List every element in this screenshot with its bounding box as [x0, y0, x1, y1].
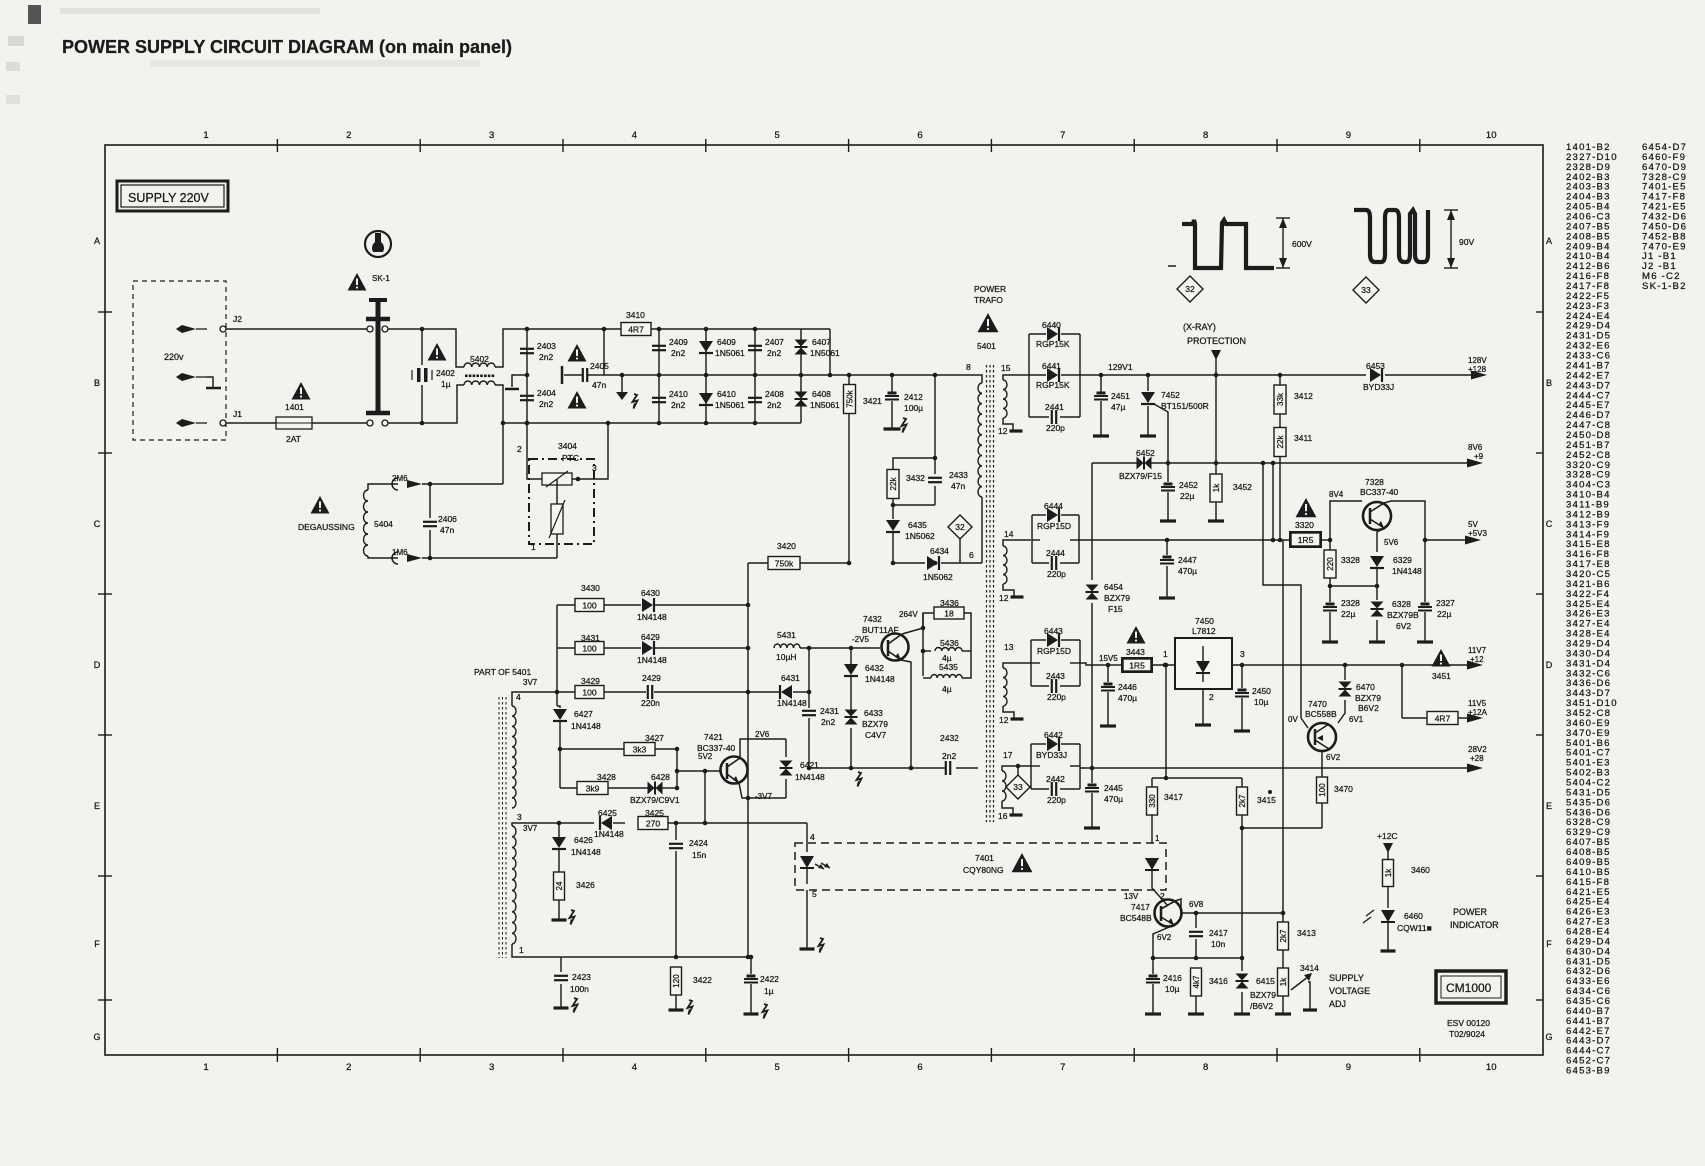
capacitor 2327 22u: [1424, 540, 1426, 602]
svg-text:1N5061: 1N5061: [715, 348, 745, 358]
svg-text:9: 9: [1346, 130, 1351, 141]
warning triangle 3443: [1127, 626, 1146, 644]
vertical feedback bus: [1282, 540, 1284, 913]
opto phototransistor: [1145, 858, 1159, 870]
svg-text:750k: 750k: [775, 559, 794, 569]
svg-text:10µ: 10µ: [1254, 697, 1268, 707]
svg-text:6V8: 6V8: [1189, 900, 1204, 909]
svg-text:6: 6: [917, 1062, 922, 1073]
connector J2: [220, 326, 226, 332]
output +128: [1385, 374, 1482, 376]
svg-text:(X-RAY): (X-RAY): [1183, 322, 1216, 332]
svg-text:6408: 6408: [812, 389, 831, 399]
LED 6460 CQW11: [1381, 910, 1395, 922]
svg-text:8: 8: [1203, 130, 1208, 141]
svg-text:6V2: 6V2: [1396, 621, 1411, 631]
svg-text:2417: 2417: [1209, 928, 1228, 938]
resistor 3320 1R5: [1289, 531, 1322, 548]
svg-text:2402: 2402: [436, 368, 455, 378]
svg-text:100: 100: [582, 601, 596, 611]
svg-text:2n2: 2n2: [767, 400, 781, 410]
wire 16V rail to 3320: [1079, 539, 1291, 541]
svg-text:3: 3: [1240, 649, 1245, 659]
fuse 1401 2AT: [292, 382, 311, 400]
svg-text:6427: 6427: [574, 709, 593, 719]
svg-text:47n: 47n: [592, 380, 606, 390]
diode 6421 1N4148: [785, 739, 787, 757]
svg-text:470µ: 470µ: [1178, 566, 1197, 576]
svg-text:6442: 6442: [1044, 730, 1063, 740]
svg-text:RGP15D: RGP15D: [1037, 521, 1071, 531]
capacitor 2445 470u: [1091, 768, 1093, 783]
svg-text:5431: 5431: [777, 630, 796, 640]
svg-text:2n2: 2n2: [671, 348, 685, 358]
svg-text:0V: 0V: [1288, 715, 1298, 724]
svg-text:SK-1-B2: SK-1-B2: [1642, 281, 1687, 292]
zener 6454 BZX79 F15: [1091, 540, 1093, 580]
svg-text:4R7: 4R7: [1435, 714, 1451, 724]
diode 6435 1N5062: [892, 505, 894, 519]
svg-text:12: 12: [999, 593, 1009, 603]
svg-text:BC337-40: BC337-40: [697, 743, 736, 753]
svg-text:3430: 3430: [581, 583, 600, 593]
svg-text:BT151/500R: BT151/500R: [1161, 401, 1209, 411]
diode 6432 1N4148: [850, 648, 852, 664]
svg-text:3: 3: [489, 130, 494, 141]
svg-text:129V1: 129V1: [1108, 362, 1133, 372]
svg-text:3416: 3416: [1209, 976, 1228, 986]
svg-text:100: 100: [1318, 783, 1327, 797]
capacitor 2424 15n: [675, 823, 677, 840]
svg-text:2404: 2404: [537, 388, 556, 398]
capacitor 2409 2n2: [658, 329, 660, 375]
wire 0V tap: [1261, 461, 1266, 466]
svg-text:3k3: 3k3: [633, 745, 647, 755]
bridge mid rail: [604, 374, 830, 376]
mains input dashed box: [133, 281, 226, 440]
svg-text:2403: 2403: [537, 341, 556, 351]
svg-text:BZX79: BZX79: [1355, 693, 1381, 703]
svg-text:+12A: +12A: [1468, 708, 1488, 717]
svg-text:24: 24: [555, 881, 564, 890]
resistor 3460 1k: [1383, 860, 1394, 887]
svg-text:+5V3: +5V3: [1468, 529, 1487, 538]
svg-text:3: 3: [489, 1062, 494, 1073]
svg-text:13: 13: [1004, 642, 1014, 652]
resistor 3421 750k: [847, 373, 852, 378]
svg-text:3421: 3421: [863, 396, 882, 406]
svg-text:2k7: 2k7: [1238, 794, 1247, 807]
output +5V3: [1425, 539, 1476, 541]
svg-text:/B6V2: /B6V2: [1250, 1001, 1273, 1011]
svg-text:E: E: [1546, 801, 1552, 811]
svg-text:6328: 6328: [1392, 599, 1411, 609]
resistor 3428 3k9: [559, 749, 561, 788]
svg-text:F: F: [94, 939, 100, 949]
svg-text:15: 15: [1001, 363, 1011, 373]
svg-text:C: C: [1546, 519, 1553, 529]
svg-text:2422: 2422: [760, 974, 779, 984]
wire pin3 rail: [530, 822, 594, 824]
svg-text:2AT: 2AT: [286, 434, 301, 444]
svg-text:2n2: 2n2: [539, 399, 553, 409]
resistor 3412 33k: [1278, 373, 1283, 378]
resistor 3422 120: [671, 967, 682, 995]
mains input pin earth: [176, 373, 196, 381]
regulator output +12 rail: [1232, 664, 1478, 666]
svg-text:1k: 1k: [1279, 977, 1288, 986]
mid tap to chassis: [525, 373, 530, 378]
svg-text:3320: 3320: [1295, 520, 1314, 530]
svg-text:9: 9: [1346, 1062, 1351, 1073]
svg-text:4: 4: [810, 832, 815, 842]
svg-text:90V: 90V: [1459, 237, 1474, 247]
svg-text:1N4148: 1N4148: [865, 674, 895, 684]
mains input pin N: [176, 419, 196, 427]
regulator pin 2 ground: [1202, 689, 1204, 724]
svg-text:6435: 6435: [908, 520, 927, 530]
svg-text:3420: 3420: [777, 541, 796, 551]
svg-text:1R5: 1R5: [1298, 535, 1314, 545]
svg-text:2n2: 2n2: [539, 352, 553, 362]
svg-text:BZX79: BZX79: [1250, 990, 1276, 1000]
svg-text:1k: 1k: [1384, 868, 1393, 877]
svg-text:5402: 5402: [470, 354, 489, 364]
svg-text:6329: 6329: [1393, 555, 1412, 565]
capacitor 2450 10u: [1241, 665, 1243, 688]
resistor 3416 4k7: [1191, 968, 1202, 996]
svg-text:BZX79B: BZX79B: [1387, 610, 1419, 620]
svg-text:J2: J2: [233, 314, 242, 324]
svg-text:5: 5: [812, 889, 817, 899]
svg-text:2445: 2445: [1104, 783, 1123, 793]
svg-text:17: 17: [1003, 750, 1013, 760]
svg-text:G: G: [1545, 1032, 1552, 1042]
svg-text:6428: 6428: [651, 772, 670, 782]
svg-text:22µ: 22µ: [1180, 491, 1194, 501]
svg-text:1: 1: [531, 542, 536, 552]
svg-text:33k: 33k: [1276, 392, 1285, 406]
svg-text:-3V7: -3V7: [755, 792, 772, 801]
svg-text:ESV 00120: ESV 00120: [1447, 1018, 1490, 1028]
svg-text:12: 12: [998, 426, 1008, 436]
svg-text:T02/9024: T02/9024: [1449, 1029, 1485, 1039]
node 8V4: [1328, 538, 1333, 543]
svg-text:BYD33J: BYD33J: [1036, 750, 1067, 760]
wire to 3427: [558, 747, 563, 752]
svg-text:3413: 3413: [1297, 928, 1316, 938]
svg-text:3V7: 3V7: [523, 678, 538, 687]
svg-text:2327: 2327: [1436, 598, 1455, 608]
svg-text:SUPPLY 220V: SUPPLY 220V: [128, 191, 210, 205]
capacitor 2451 47u: [1099, 373, 1104, 378]
svg-text:+28: +28: [1470, 754, 1484, 763]
wire 129V1 rail: [1080, 374, 1366, 376]
svg-text:18: 18: [944, 609, 954, 619]
svg-text:1µ: 1µ: [764, 986, 774, 996]
diamond 33 node: [1016, 764, 1021, 769]
svg-text:1: 1: [203, 130, 208, 141]
wire 12V tap to 3417 3415: [1165, 665, 1167, 778]
svg-text:47µ: 47µ: [1111, 402, 1125, 412]
resistor 3411 22k: [1279, 414, 1281, 428]
svg-text:C4V7: C4V7: [865, 730, 887, 740]
svg-text:10: 10: [1486, 1062, 1497, 1073]
svg-text:6407: 6407: [812, 337, 831, 347]
svg-text:6V2: 6V2: [1326, 753, 1341, 762]
svg-text:TRAFO: TRAFO: [974, 295, 1003, 305]
svg-text:2431: 2431: [820, 706, 839, 716]
svg-text:1N5061: 1N5061: [715, 400, 745, 410]
capacitor 2406 47n: [422, 483, 503, 485]
svg-text:15V5: 15V5: [1099, 654, 1118, 663]
svg-text:1N4148: 1N4148: [1392, 566, 1422, 576]
svg-text:270: 270: [646, 819, 660, 829]
svg-text:1: 1: [203, 1062, 208, 1073]
collector 7417 6V8 rail: [1175, 899, 1196, 913]
svg-text:5401: 5401: [977, 341, 996, 351]
emitter 7421: [739, 783, 786, 798]
capacitor 2431 2n2: [808, 648, 810, 708]
svg-text:47n: 47n: [440, 525, 454, 535]
left bus of resistor rows: [556, 605, 558, 692]
svg-text:2433: 2433: [949, 470, 968, 480]
svg-text:VOLTAGE: VOLTAGE: [1329, 986, 1370, 996]
svg-text:22µ: 22µ: [1341, 609, 1355, 619]
svg-text:D: D: [94, 660, 101, 670]
svg-text:22k: 22k: [1276, 435, 1285, 449]
svg-text:+9: +9: [1474, 452, 1484, 461]
svg-text:B: B: [94, 378, 100, 388]
left hv bus 6454: [1091, 463, 1093, 540]
svg-text:6433: 6433: [864, 708, 883, 718]
svg-text:CM1000: CM1000: [1446, 981, 1492, 995]
svg-text:470µ: 470µ: [1118, 693, 1137, 703]
svg-text:3: 3: [592, 463, 597, 473]
svg-text:6432: 6432: [865, 663, 884, 673]
waveform 32 600V: [1182, 220, 1274, 268]
emitter 7417: [1153, 925, 1174, 958]
capacitor 2416 10u: [1152, 958, 1154, 974]
diode 6426 1N4148: [558, 823, 560, 837]
diode 6329 1N4148: [1370, 556, 1384, 567]
capacitor 2412 100u: [890, 373, 895, 378]
wire row 6429: [557, 647, 575, 649]
svg-text:10n: 10n: [1211, 939, 1225, 949]
svg-text:220p: 220p: [1047, 692, 1066, 702]
svg-text:2405: 2405: [590, 361, 609, 371]
svg-text:6: 6: [969, 550, 974, 560]
emitter 7432 to ground rail: [901, 660, 911, 768]
resistor 3426 24: [554, 872, 565, 900]
capacitor 2405 47n with chassis: [603, 329, 605, 375]
zener 6328 BZX79B 6V2: [1376, 586, 1378, 600]
wire 15V5 rail: [1080, 663, 1108, 665]
svg-text:ADJ: ADJ: [1329, 999, 1346, 1009]
svg-text:3427: 3427: [645, 733, 664, 743]
svg-text:L7812: L7812: [1192, 626, 1216, 636]
svg-text:7452: 7452: [1161, 390, 1180, 400]
warning triangle 3320: [1296, 498, 1317, 517]
svg-text:8V6: 8V6: [1468, 443, 1483, 452]
resistor 3417 330: [1151, 778, 1153, 787]
svg-text:33: 33: [1361, 285, 1371, 295]
svg-text:100: 100: [582, 644, 596, 654]
capacitor 2433 47n: [934, 458, 936, 474]
svg-text:2407: 2407: [765, 337, 784, 347]
capacitor 2452 22u: [1166, 461, 1171, 466]
svg-text:E: E: [94, 801, 100, 811]
svg-text:16: 16: [998, 811, 1008, 821]
svg-text:1N5061: 1N5061: [810, 348, 840, 358]
PTC horizontal element: [542, 473, 572, 485]
svg-text:2410: 2410: [669, 389, 688, 399]
bottom rail: [530, 956, 751, 958]
wire SK-1 to filter bottom: [388, 422, 422, 424]
svg-text:4: 4: [516, 692, 521, 702]
svg-text:BC558B: BC558B: [1305, 709, 1337, 719]
svg-text:F: F: [1546, 939, 1552, 949]
svg-text:6410: 6410: [717, 389, 736, 399]
svg-text:5436: 5436: [940, 638, 959, 648]
optocoupler 7401 CQY80NG dashed box: [795, 843, 1166, 890]
svg-text:13V: 13V: [1124, 892, 1139, 901]
svg-text:11V5: 11V5: [1468, 699, 1487, 708]
svg-text:A: A: [94, 236, 100, 246]
svg-text:4k7: 4k7: [1192, 975, 1201, 988]
svg-text:RGP15K: RGP15K: [1036, 380, 1070, 390]
svg-text:1k: 1k: [1212, 483, 1221, 492]
svg-text:3429: 3429: [581, 676, 600, 686]
svg-text:POWER: POWER: [1453, 907, 1488, 917]
svg-text:6452: 6452: [1136, 448, 1155, 458]
transformer core: [986, 365, 988, 822]
svg-text:2451: 2451: [1111, 391, 1130, 401]
svg-text:F15: F15: [1108, 604, 1123, 614]
svg-text:220p: 220p: [1046, 423, 1065, 433]
PTC vertical element: [556, 479, 558, 504]
svg-text:1R5: 1R5: [1129, 661, 1145, 671]
wire 3415 to 3470 bottom: [1242, 827, 1322, 829]
svg-text:BYD33J: BYD33J: [1363, 382, 1394, 392]
wires 3436 5436 right join: [962, 613, 971, 678]
svg-text:3411: 3411: [1294, 433, 1313, 443]
resistor 3413 2k7: [1282, 913, 1284, 922]
svg-text:220p: 220p: [1047, 795, 1066, 805]
svg-text:6430: 6430: [641, 588, 660, 598]
svg-text:2V6: 2V6: [755, 730, 770, 739]
svg-text:CQW11■: CQW11■: [1397, 923, 1432, 933]
svg-text:1N4148: 1N4148: [637, 655, 667, 665]
capacitor 2328 22u: [1329, 586, 1331, 602]
svg-text:1N4148: 1N4148: [637, 612, 667, 622]
svg-text:SK-1: SK-1: [372, 274, 390, 283]
svg-text:5435: 5435: [939, 662, 958, 672]
svg-text:100µ: 100µ: [904, 403, 923, 413]
svg-text:J1: J1: [233, 409, 242, 419]
svg-text:6443: 6443: [1044, 626, 1063, 636]
svg-text:2432: 2432: [940, 733, 959, 743]
svg-text:47n: 47n: [951, 481, 965, 491]
switch SK-1: [365, 231, 391, 257]
svg-text:SUPPLY: SUPPLY: [1329, 973, 1364, 983]
svg-text:1: 1: [1163, 649, 1168, 659]
svg-text:2n2: 2n2: [821, 717, 835, 727]
osc ground rail: [809, 767, 945, 769]
output +9: [1467, 459, 1483, 468]
svg-text:BZX79: BZX79: [862, 719, 888, 729]
svg-text:2409: 2409: [669, 337, 688, 347]
resistor 3443 1R5: [1108, 664, 1123, 666]
svg-text:3414: 3414: [1300, 963, 1319, 973]
svg-text:7: 7: [1060, 130, 1065, 141]
svg-text:1N5062: 1N5062: [905, 531, 935, 541]
svg-text:D: D: [1546, 660, 1553, 670]
svg-text:5: 5: [775, 130, 780, 141]
svg-text:1N4148: 1N4148: [795, 772, 825, 782]
wire 3425 to base bus: [704, 771, 706, 823]
capacitor 2404 2n2: [520, 395, 534, 397]
svg-text:6460: 6460: [1404, 911, 1423, 921]
svg-text:3410: 3410: [626, 310, 645, 320]
svg-text:1µ: 1µ: [441, 379, 451, 389]
rectifier block 6440 6441 box: [1028, 334, 1030, 417]
svg-text:6415: 6415: [1256, 976, 1275, 986]
svg-text:2n2: 2n2: [942, 751, 956, 761]
svg-text:PART OF 5401: PART OF 5401: [474, 667, 531, 677]
svg-text:+128: +128: [1468, 365, 1487, 374]
diamond 32 waveform: [1177, 276, 1203, 302]
svg-text:POWER: POWER: [974, 284, 1006, 294]
svg-text:5404: 5404: [374, 519, 393, 529]
wire row 6430: [557, 604, 575, 606]
svg-text:2441: 2441: [1045, 402, 1064, 412]
svg-text:BZX79/F15: BZX79/F15: [1119, 471, 1162, 481]
SUPPLY 220V box: [117, 181, 228, 211]
rectifier 6444 RGP15D box: [1031, 515, 1033, 563]
diode 6408 1N5061: [800, 375, 802, 423]
svg-text:264V: 264V: [899, 610, 918, 619]
collector 7421: [740, 739, 786, 758]
svg-text:5: 5: [775, 1062, 780, 1073]
wire J2 to SK-1: [226, 328, 368, 330]
wire bridge output rail: [830, 374, 975, 376]
svg-text:3404: 3404: [558, 441, 577, 451]
svg-text:3V7: 3V7: [523, 824, 538, 833]
svg-text:14: 14: [1004, 529, 1014, 539]
svg-text:2: 2: [1209, 692, 1214, 702]
svg-text:6431: 6431: [781, 673, 800, 683]
svg-text:2n2: 2n2: [767, 348, 781, 358]
svg-text:10µ: 10µ: [1165, 984, 1179, 994]
svg-text:B: B: [1546, 378, 1552, 388]
svg-text:750k: 750k: [845, 389, 854, 407]
svg-text:33: 33: [1013, 782, 1023, 792]
svg-text:120: 120: [672, 974, 681, 988]
svg-text:BC548B: BC548B: [1120, 913, 1152, 923]
capacitor 2403 2n2: [526, 329, 528, 423]
svg-text:3428: 3428: [597, 772, 616, 782]
svg-text:4µ: 4µ: [942, 684, 952, 694]
capacitor 2410 2n2: [658, 375, 660, 423]
wire SK-1 to filter top: [388, 328, 422, 330]
output +12A with 4R7: [1400, 663, 1405, 668]
svg-text:3k9: 3k9: [586, 784, 600, 794]
capacitor 2417 10n: [1195, 913, 1197, 928]
wire 3410 to bridge: [651, 328, 830, 330]
svg-text:15n: 15n: [692, 850, 706, 860]
svg-text:G: G: [93, 1032, 100, 1042]
